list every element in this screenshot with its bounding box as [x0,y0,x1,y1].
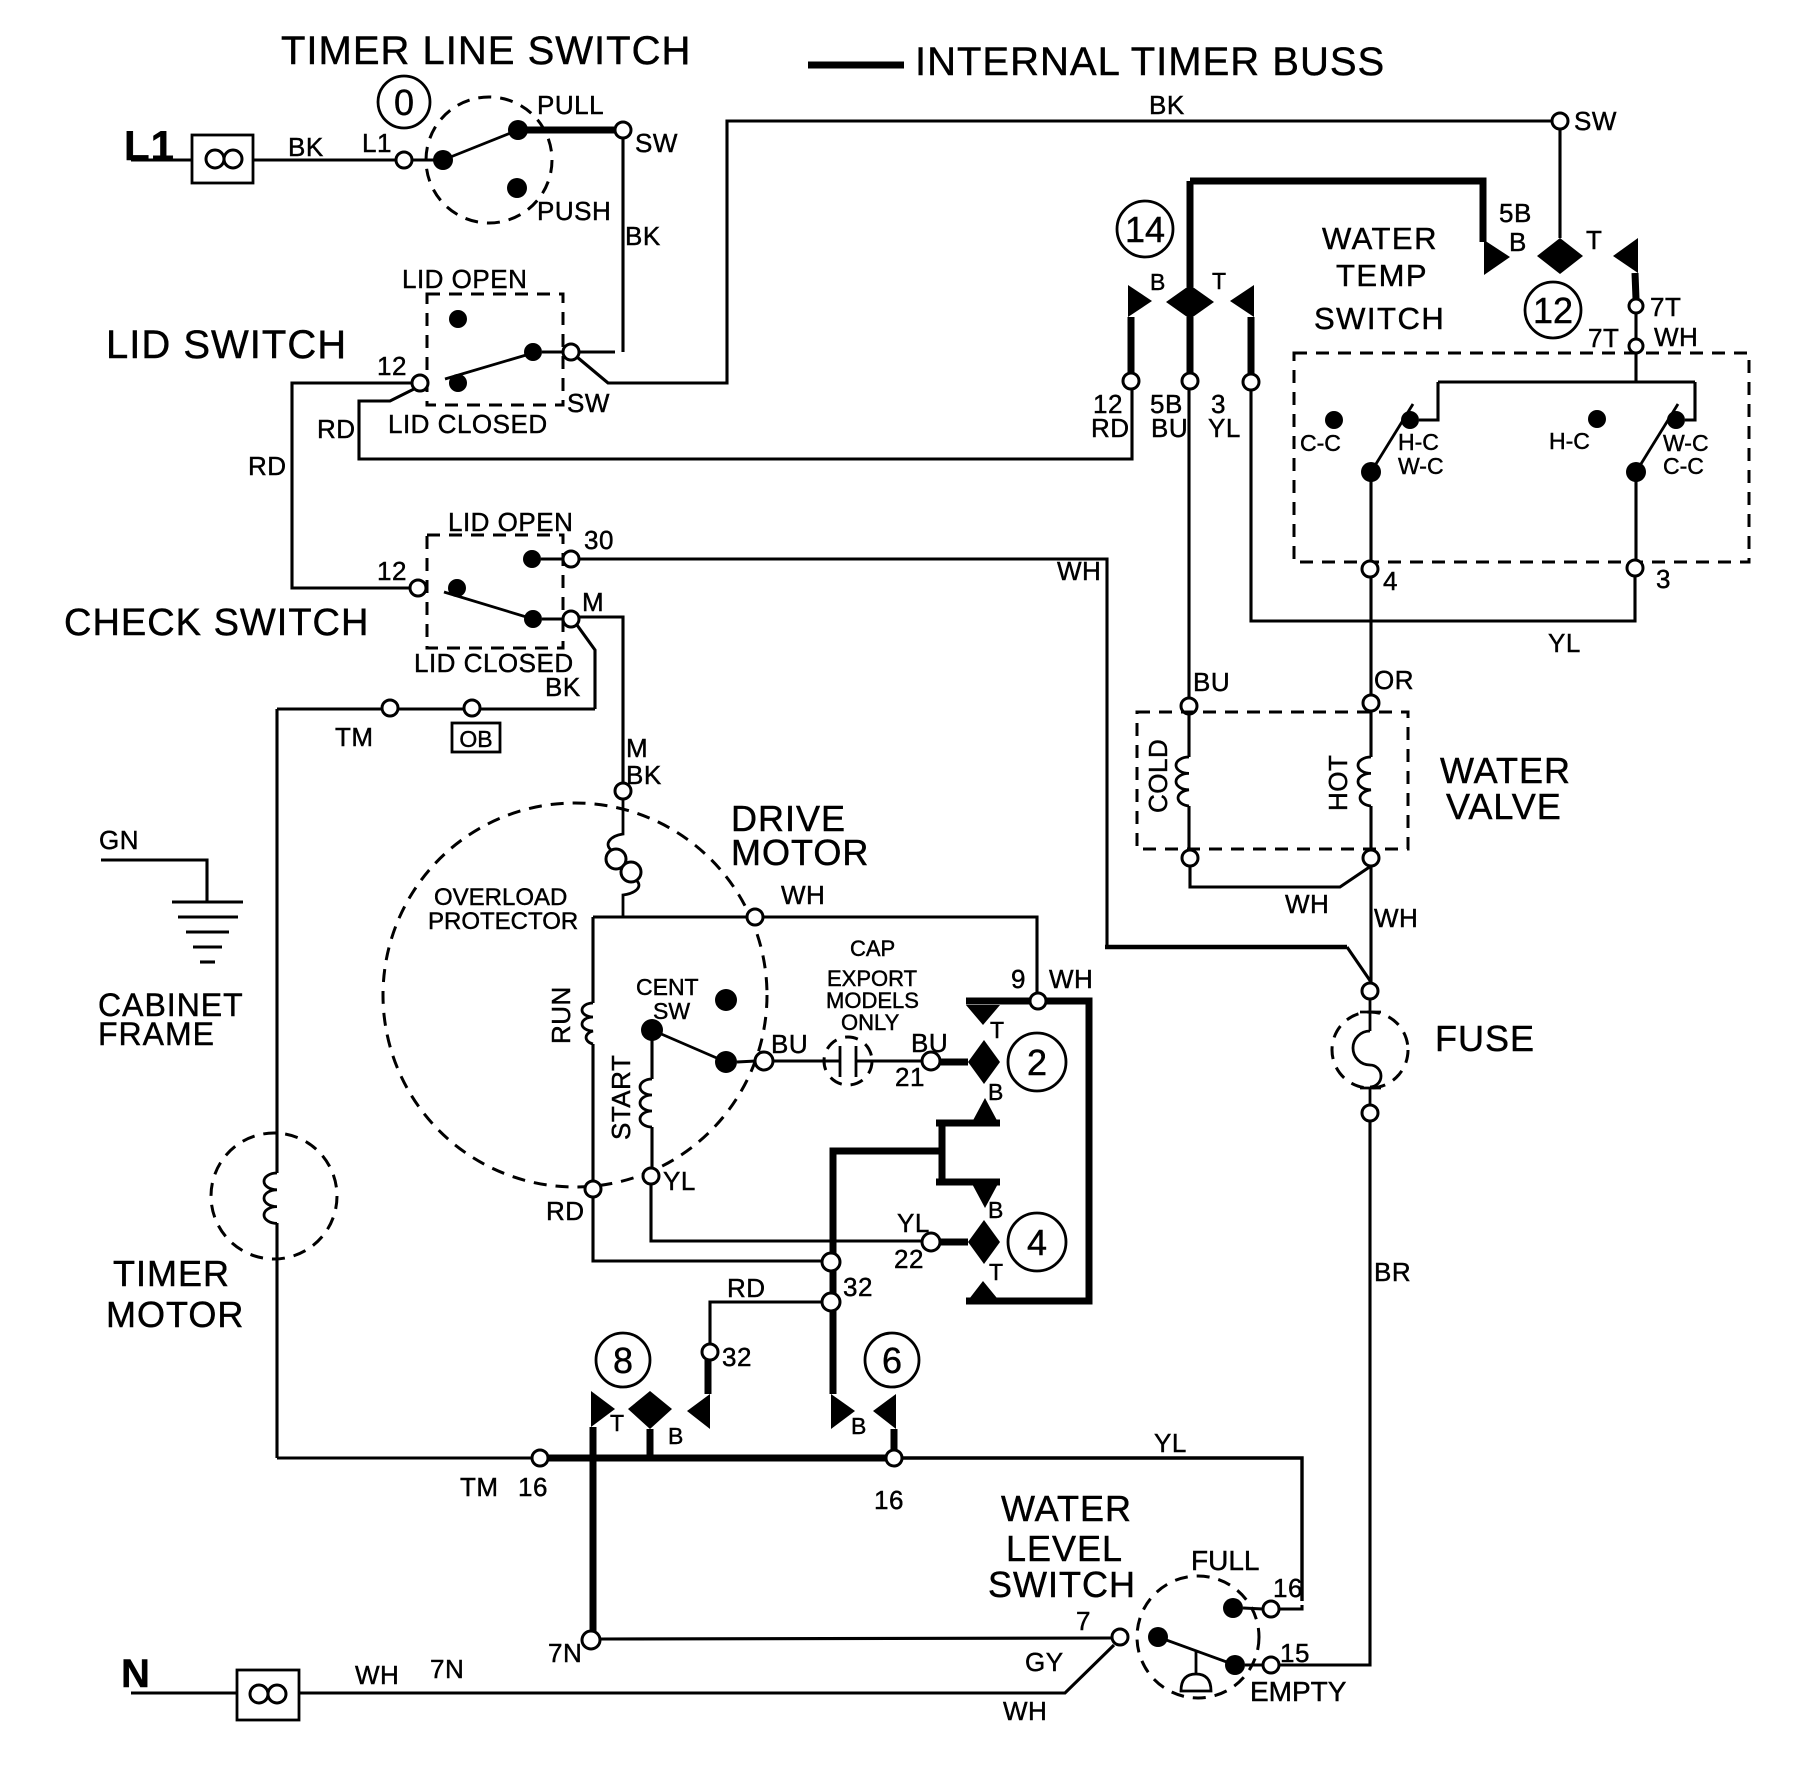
svg-text:TIMER: TIMER [113,1253,230,1294]
svg-text:BU: BU [1193,667,1230,697]
terminal BU [755,1052,773,1070]
contact LID CLOSED [449,374,467,392]
svg-text:WH: WH [1654,322,1698,352]
switch arm H-C [1371,404,1413,472]
junction OB [464,700,480,716]
wire [1243,1608,1263,1609]
svg-text:L1: L1 [124,122,175,169]
wire bus [1438,380,1695,383]
wire WH to fuse [579,559,1107,947]
contact LID OPEN [449,310,467,328]
svg-text:START: START [606,1055,636,1140]
wire BK [621,138,624,352]
svg-text:WH: WH [1003,1696,1047,1726]
cam 4 diamond [968,1220,1000,1264]
svg-text:FRAME: FRAME [98,1016,215,1052]
svg-text:OR: OR [1374,665,1414,695]
svg-text:SW: SW [635,128,678,158]
circled 14 [1117,201,1173,257]
svg-text:SWITCH: SWITCH [1314,301,1445,336]
svg-text:YL: YL [1548,628,1581,658]
svg-text:BK: BK [545,672,581,702]
terminal 5B BU [1182,373,1198,389]
svg-text:WH: WH [1285,889,1329,919]
terminal YL [643,1168,659,1184]
svg-text:BR: BR [1374,1257,1411,1287]
cam 4 triangle B [970,1180,1000,1208]
cent sw arm [652,1030,726,1062]
buss 7N stem [590,1427,597,1632]
wire OR [1369,577,1372,695]
wire buss [518,127,616,134]
cam 8 diamond [628,1391,672,1429]
capacitor body (dashed) [824,1037,872,1085]
svg-text:N: N [121,1652,150,1696]
terminal 12 RD [1123,373,1139,389]
terminal cold out [1182,850,1198,866]
svg-text:COLD: COLD [1143,739,1173,813]
svg-text:7N: 7N [430,1654,464,1684]
wire [1245,1663,1263,1666]
fuse terminal [1362,1105,1378,1121]
junction WH [747,909,763,925]
svg-text:5B: 5B [1499,198,1532,228]
svg-text:7N: 7N [548,1638,582,1668]
svg-text:7T: 7T [1650,292,1681,322]
svg-text:OB: OB [459,726,492,752]
wire BK to buss [577,121,1553,383]
contact EMPTY [1225,1655,1245,1675]
wire [1369,481,1372,561]
cam 6 triangle B [873,1394,896,1429]
connector plug L1 [192,135,253,183]
terminal 32 [702,1344,718,1360]
cam 4 triangle T [966,1281,1001,1303]
wire RD to cam 8 [710,1302,822,1344]
svg-text:LID OPEN: LID OPEN [448,507,573,537]
terminal 3 [1627,560,1643,576]
svg-text:B: B [988,1079,1003,1105]
fuse body (dashed) [1332,1012,1408,1088]
terminal L1 node [396,152,412,168]
svg-text:WH: WH [781,880,825,910]
svg-text:ONLY: ONLY [841,1010,900,1035]
RUN winding [582,1003,593,1044]
wire [773,1059,840,1062]
svg-text:INTERNAL TIMER BUSS: INTERNAL TIMER BUSS [915,40,1385,84]
wire [412,158,443,161]
svg-text:BK: BK [625,221,661,251]
svg-text:WATER: WATER [1001,1488,1132,1529]
wire BK [253,158,398,161]
contact W-C [1667,411,1685,429]
svg-text:YL: YL [897,1208,930,1238]
cam 14 triangle T [1230,285,1254,317]
water valve body (dashed) [1137,712,1408,849]
buss stem [891,1429,898,1452]
svg-text:BK: BK [1149,90,1185,120]
wire TM 16 [277,1456,533,1459]
terminal OR [1363,695,1379,711]
wire [541,557,563,560]
svg-text:WH: WH [355,1660,399,1690]
cam 12 triangle B [1484,240,1510,275]
buss stem [1248,317,1255,375]
junction 16 [886,1450,902,1466]
svg-text:FUSE: FUSE [1435,1018,1535,1059]
svg-text:32: 32 [843,1272,873,1302]
wire [856,1059,923,1062]
svg-text:BU: BU [911,1028,948,1058]
buss internal timer [1190,181,1483,242]
timer motor body (dashed) [211,1133,337,1259]
terminal 4 [1362,561,1378,577]
wire [737,1061,756,1062]
contact C-C [1325,411,1343,429]
svg-text:OVERLOAD: OVERLOAD [434,884,567,911]
circled 8 [596,1333,650,1387]
terminal SW [1552,113,1568,129]
svg-text:12: 12 [377,351,407,381]
buss stem [1187,181,1194,287]
wire BU [1187,388,1190,698]
terminal 7T WH [1629,339,1643,353]
svg-text:LEVEL: LEVEL [1006,1528,1123,1569]
wire [542,350,563,353]
cam 2 diamond [968,1040,1000,1084]
svg-text:VALVE: VALVE [1446,786,1562,827]
check switch body (dashed) [427,535,563,648]
switch arm [1158,1637,1235,1665]
contact LID OPEN 30 [523,550,541,568]
contact PULL [508,120,528,140]
terminal M [563,611,579,627]
svg-text:L1: L1 [362,128,392,158]
circled 6 [865,1333,919,1387]
wire [650,1040,653,1079]
buss stem [647,1429,654,1458]
timer motor coil [264,1173,277,1223]
connector buss bracket [966,1001,1089,1301]
contact H-C 2 [1588,410,1606,428]
svg-text:BU: BU [1151,413,1188,443]
wire GN [101,860,207,902]
terminal 22 [922,1233,940,1251]
svg-text:PUSH: PUSH [537,196,611,226]
wire BR [1279,1121,1370,1665]
wire YL to water level [902,1458,1302,1601]
wire TM [277,707,595,710]
svg-text:HOT: HOT [1323,755,1353,811]
drive motor outline top [593,917,1037,993]
svg-text:WATER: WATER [1322,221,1438,256]
svg-text:GY: GY [1025,1647,1064,1677]
svg-text:4: 4 [1027,1222,1047,1263]
cent sw pivot [641,1019,663,1041]
svg-text:WH: WH [1049,964,1093,994]
buss stem [1635,273,1636,299]
wire [1558,129,1561,238]
wire [131,1691,237,1694]
svg-text:T: T [1586,225,1602,255]
svg-text:TIMER LINE SWITCH: TIMER LINE SWITCH [281,29,691,73]
switch arm [445,353,533,379]
wire 7N [600,1638,1112,1639]
svg-text:32: 32 [722,1342,752,1372]
svg-text:T: T [1212,268,1226,294]
wire [275,1223,278,1458]
cam 8 triangle B [687,1394,710,1429]
svg-text:2: 2 [1027,1042,1047,1083]
svg-text:6: 6 [882,1340,902,1381]
circled 0 [378,76,430,128]
svg-text:CENT: CENT [636,974,699,1000]
terminal M BK [615,783,631,799]
switch arm W-C [1636,404,1678,472]
svg-text:EMPTY: EMPTY [1250,1676,1347,1707]
wire RD [292,383,412,588]
svg-text:WATER: WATER [1440,750,1571,791]
label OB boxed [452,723,500,752]
contact FULL [1223,1598,1243,1618]
terminal hot out [1363,850,1379,866]
terminal 7T [1629,299,1643,313]
svg-text:C-C: C-C [1663,453,1704,479]
svg-text:H-C: H-C [1398,429,1439,455]
buss B cams 2 and 4 [833,1123,1000,1394]
svg-text:22: 22 [894,1244,924,1274]
wire BK [577,625,595,709]
wire M BK [579,617,623,783]
terminal SW [615,122,631,138]
terminal SW [563,344,579,360]
svg-text:T: T [989,1259,1003,1285]
wire [1279,1605,1302,1609]
svg-text:LID OPEN: LID OPEN [402,264,527,294]
junction 32 lower [822,1293,840,1311]
contact M [524,610,542,628]
svg-text:30: 30 [584,525,614,555]
svg-text:12: 12 [377,556,407,586]
svg-text:CAP: CAP [850,936,895,961]
HOT coil [1358,711,1371,850]
terminal RD [585,1181,601,1197]
wire WH [299,1645,1114,1693]
cam 14 triangle B [1128,285,1152,317]
svg-text:M: M [582,587,604,617]
svg-text:SW: SW [1574,106,1617,136]
junction 32 upper [822,1253,840,1271]
wire [579,350,615,353]
svg-text:B: B [1509,227,1527,257]
cam 12 diamond [1537,238,1583,274]
cam 2 triangle B [970,1098,1000,1126]
svg-text:21: 21 [895,1062,925,1092]
svg-text:T: T [610,1410,624,1436]
terminal BU [1181,698,1197,714]
svg-text:GN: GN [99,825,139,855]
svg-text:3: 3 [1656,564,1671,594]
svg-text:B: B [1150,269,1165,295]
wire YL to 22 [651,1184,923,1241]
terminal 7N [582,1631,600,1649]
wire stub to cam 2 [940,1059,968,1066]
connector plug N [237,1670,299,1720]
fuse element [1353,999,1381,1105]
wire RD to junction 32 [593,1197,823,1261]
terminal 7 [1112,1629,1128,1645]
overload protector body (dashed) [383,803,767,1187]
COLD coil [1176,714,1189,850]
terminal 9 [1030,993,1046,1009]
water temp switch body (dashed) [1294,353,1749,562]
drive motor outline left [591,917,594,1003]
wire [542,617,563,620]
fuse terminal top [1362,983,1378,999]
contact PUSH [507,178,527,198]
cam 12 triangle T [1613,238,1638,273]
svg-text:PROTECTOR: PROTECTOR [428,908,578,935]
ground cabinet frame [172,902,243,962]
switch pivot [433,150,453,170]
terminal 15 [1263,1657,1279,1673]
svg-text:WH: WH [1057,556,1101,586]
svg-text:7T: 7T [1588,323,1619,353]
svg-text:16: 16 [518,1472,548,1502]
capacitor [840,1046,856,1077]
svg-text:SW: SW [653,998,690,1024]
junction TM [382,700,398,716]
circled 4 [1008,1213,1066,1271]
wire [1634,313,1637,339]
svg-text:B: B [851,1413,866,1439]
terminal 21 [922,1052,940,1070]
svg-text:M: M [626,733,648,763]
svg-text:16: 16 [1273,1573,1303,1603]
svg-text:TM: TM [460,1472,499,1502]
contact common [1148,1627,1168,1647]
buss 16 [548,1455,886,1462]
wire TM vertical [275,709,278,1173]
svg-text:RD: RD [248,451,287,481]
float [1181,1650,1211,1691]
svg-text:B: B [988,1197,1003,1223]
buss stem [705,1360,712,1394]
svg-text:PULL: PULL [537,90,604,120]
wire [131,158,192,161]
svg-text:BK: BK [288,132,324,162]
pivot [1626,462,1646,482]
svg-text:YL: YL [1154,1428,1187,1458]
svg-text:WH: WH [1374,903,1418,933]
circled 12 [1525,282,1581,338]
svg-text:B: B [668,1423,683,1449]
timer line switch body (dashed) [426,97,552,223]
svg-text:LID CLOSED: LID CLOSED [388,409,548,439]
wire [1634,353,1637,382]
svg-text:TM: TM [335,722,374,752]
cent sw floating contact [715,989,737,1011]
svg-text:4: 4 [1383,566,1398,596]
terminal 16 [1263,1601,1279,1617]
svg-text:7: 7 [1076,1606,1091,1636]
terminal 12 [412,375,428,391]
cam 2 triangle T [966,1005,1000,1025]
svg-text:YL: YL [1208,413,1241,443]
wire [650,1127,653,1168]
svg-text:YL: YL [663,1166,696,1196]
svg-text:C-C: C-C [1300,430,1341,456]
wire [1685,382,1695,420]
svg-text:TEMP: TEMP [1336,258,1428,293]
lid switch body (dashed) [427,294,563,405]
terminal 3 YL [1243,374,1259,390]
contact LID CLOSED [448,579,466,597]
svg-text:T: T [990,1017,1004,1043]
svg-text:0: 0 [394,82,414,123]
svg-text:MOTOR: MOTOR [106,1294,244,1335]
buss stem [1187,317,1194,373]
svg-text:MOTOR: MOTOR [731,832,869,873]
wire YL [1251,390,1635,621]
svg-text:SWITCH: SWITCH [988,1564,1136,1605]
START winding [640,1079,652,1127]
buss stem [1128,317,1135,373]
svg-text:RD: RD [1091,413,1130,443]
svg-text:LID SWITCH: LID SWITCH [106,323,347,367]
circled 2 [1008,1033,1066,1091]
terminal 30 [563,551,579,567]
svg-text:FULL: FULL [1191,1545,1259,1576]
pivot [1361,462,1381,482]
switch arm [444,592,533,619]
svg-text:RD: RD [317,414,356,444]
wire [1419,382,1438,420]
svg-text:H-C: H-C [1549,428,1590,454]
wire stub to cam 4 [940,1239,968,1246]
svg-text:12: 12 [1533,290,1573,331]
svg-text:RD: RD [546,1196,585,1226]
water level switch body (dashed) [1137,1576,1259,1698]
svg-text:W-C: W-C [1398,453,1444,479]
svg-text:14: 14 [1125,209,1165,250]
svg-text:RUN: RUN [546,986,576,1044]
wire [1634,481,1637,560]
svg-text:8: 8 [613,1340,633,1381]
cam 6 triangle T [831,1394,855,1429]
terminal 12 [410,580,426,596]
svg-text:BU: BU [771,1029,808,1059]
buss cam2 T feed [966,998,1030,1005]
wire [591,1044,594,1181]
cam 14 diamond [1166,285,1214,319]
svg-text:CHECK SWITCH: CHECK SWITCH [64,602,369,644]
svg-text:9: 9 [1011,964,1026,994]
svg-text:BK: BK [626,760,662,790]
svg-text:RD: RD [727,1273,766,1303]
wire RD to timer 12 [359,388,1132,459]
switch arm [443,130,518,160]
svg-text:16: 16 [874,1485,904,1515]
cam 8 triangle T [591,1391,615,1427]
contact H-C [1401,411,1419,429]
junction 16 [532,1450,548,1466]
wire WH [1369,866,1372,983]
wire WH [1190,866,1371,887]
contact SW [524,343,542,361]
svg-text:SW: SW [567,388,610,418]
cent sw contact [715,1051,737,1073]
